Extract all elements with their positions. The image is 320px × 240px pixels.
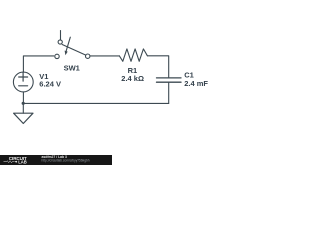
watermark logo wire+zigzag bbox=[4, 161, 17, 163]
svg-text:LAB: LAB bbox=[18, 159, 27, 164]
junction dot bbox=[22, 102, 25, 105]
capacitor C1 bbox=[157, 78, 182, 82]
switch actuator arrow bbox=[66, 37, 71, 52]
switch lever bbox=[62, 45, 86, 56]
wire top-left corner bbox=[23, 56, 53, 72]
resistor R1 bbox=[119, 49, 147, 61]
svg-text:6.24 V: 6.24 V bbox=[39, 79, 61, 88]
watermark bar bbox=[0, 155, 112, 165]
voltage source V1 bbox=[13, 72, 33, 92]
labels bbox=[39, 63, 208, 88]
switch SW1 bbox=[55, 54, 59, 58]
wire switch to resistor bbox=[90, 55, 119, 57]
wire bottom bbox=[23, 102, 168, 104]
ground bbox=[22, 103, 24, 113]
wire V1 bottom to junction bbox=[22, 92, 24, 104]
switch throw stub bbox=[60, 31, 62, 40]
wire resistor to top-right corner bbox=[147, 56, 168, 77]
svg-text:SW1: SW1 bbox=[64, 63, 80, 72]
svg-text:http://circuitlab.com/c/byy756: http://circuitlab.com/c/byy756kgbh bbox=[42, 159, 90, 163]
svg-text:2.4 kΩ: 2.4 kΩ bbox=[121, 74, 144, 83]
wire capacitor to bottom-right corner bbox=[168, 83, 170, 104]
svg-text:2.4 mF: 2.4 mF bbox=[184, 79, 208, 88]
